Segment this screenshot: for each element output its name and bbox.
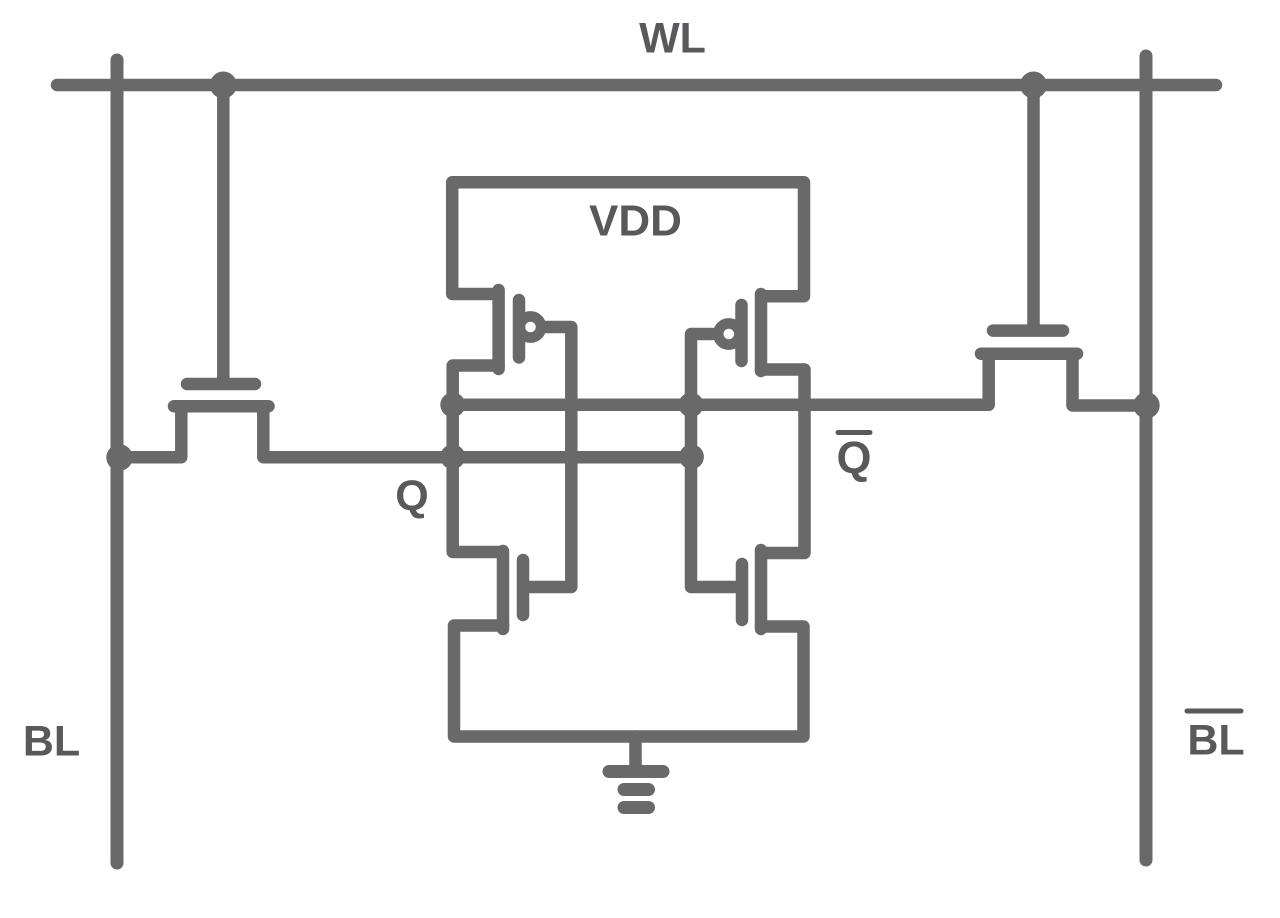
transistor P2 channel bar (755, 294, 768, 371)
wire ground stub (629, 737, 642, 766)
svg-text:BL: BL (23, 718, 80, 766)
transistor P1 gate bar (513, 300, 526, 358)
transistor M5 left access gate lead (217, 85, 230, 378)
transistor M6 right access gate lead (1027, 85, 1040, 325)
transistor N1 gate bar (517, 560, 530, 615)
junction dot BL access (106, 444, 132, 470)
svg-text:VDD: VDD (589, 196, 682, 245)
transistor M6 channel bar (981, 347, 1077, 360)
op bubble P1 gate (520, 316, 541, 337)
wire N1 source, ground rail, N2 source (454, 626, 804, 737)
ground symbol bar 2 (624, 783, 649, 796)
op bubble P2 gate (718, 323, 739, 344)
junction dot WL left (210, 72, 237, 99)
wire rail Qbar horizontal to right access (453, 357, 989, 405)
svg-text:Q: Q (395, 472, 428, 520)
junction dot node Q rail at inverter2 input (679, 444, 704, 469)
wire P2 gate to N2 gate cross-coupling (691, 334, 736, 587)
junction dot node Q rail at inverter1 output (440, 444, 465, 469)
ground symbol bar 3 (624, 801, 649, 814)
ground symbol bar 1 (609, 765, 663, 778)
svg-text:Q: Q (836, 432, 871, 483)
junction dot WL right (1020, 72, 1047, 99)
transistor M5 gate bar (187, 378, 255, 391)
transistor P1 channel bar (492, 290, 505, 369)
wire M5 source to BL (124, 409, 181, 457)
transistor N2 channel bar (755, 550, 768, 629)
transistor M6 gate bar (993, 324, 1063, 337)
wire BL bit line (111, 60, 124, 863)
transistor P2 drain to N2 drain vertical (761, 370, 805, 554)
wire WL word line (57, 79, 1216, 92)
transistor N2 gate bar (736, 564, 749, 620)
wire P1 gate to N1 gate cross-coupling (530, 327, 571, 587)
junction dot BLbar access (1133, 392, 1159, 418)
transistor P2 gate bar (735, 305, 748, 361)
overline of BLbar (1187, 709, 1241, 714)
junction dot Qbar rail at inverter2 input (679, 392, 704, 417)
junction dot Qbar rail at inverter1 output (440, 392, 465, 417)
wire M6 drain to BLbar (1073, 357, 1147, 406)
svg-text:WL: WL (639, 15, 706, 63)
transistor P1 drain to N1 drain vertical (453, 366, 503, 553)
overline of Qbar (838, 430, 870, 435)
wire BLbar bit line complement (1140, 56, 1153, 860)
svg-text:BL: BL (1187, 717, 1244, 765)
transistor M5 channel bar (174, 400, 269, 413)
transistor N1 channel bar (497, 551, 510, 629)
wire VDD box (452, 182, 804, 296)
wire M5 drain to node Q rail (263, 409, 691, 457)
